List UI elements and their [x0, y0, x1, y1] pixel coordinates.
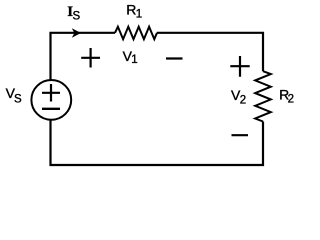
current arrow on top wire	[72, 28, 81, 38]
plus sign V1	[81, 48, 100, 68]
svg-text:S: S	[73, 11, 81, 23]
svg-text:2: 2	[240, 95, 246, 107]
resistor R2 zigzag	[255, 71, 271, 121]
wire right bottom + bottom + left up to source	[51, 120, 264, 165]
wire top: left corner to R1	[51, 33, 116, 80]
svg-text:2: 2	[288, 94, 294, 106]
minus inside source	[42, 108, 60, 110]
minus sign V1	[166, 57, 183, 59]
svg-text:1: 1	[136, 9, 142, 21]
svg-text:S: S	[14, 94, 22, 106]
svg-text:1: 1	[131, 54, 137, 66]
minus sign V2	[232, 134, 249, 136]
resistor R1 zigzag	[115, 27, 157, 40]
plus inside source	[42, 84, 60, 102]
voltage source VS circle	[31, 80, 71, 120]
plus sign V2	[230, 56, 249, 77]
wire top: R1 to right corner, down to R2	[157, 33, 263, 71]
